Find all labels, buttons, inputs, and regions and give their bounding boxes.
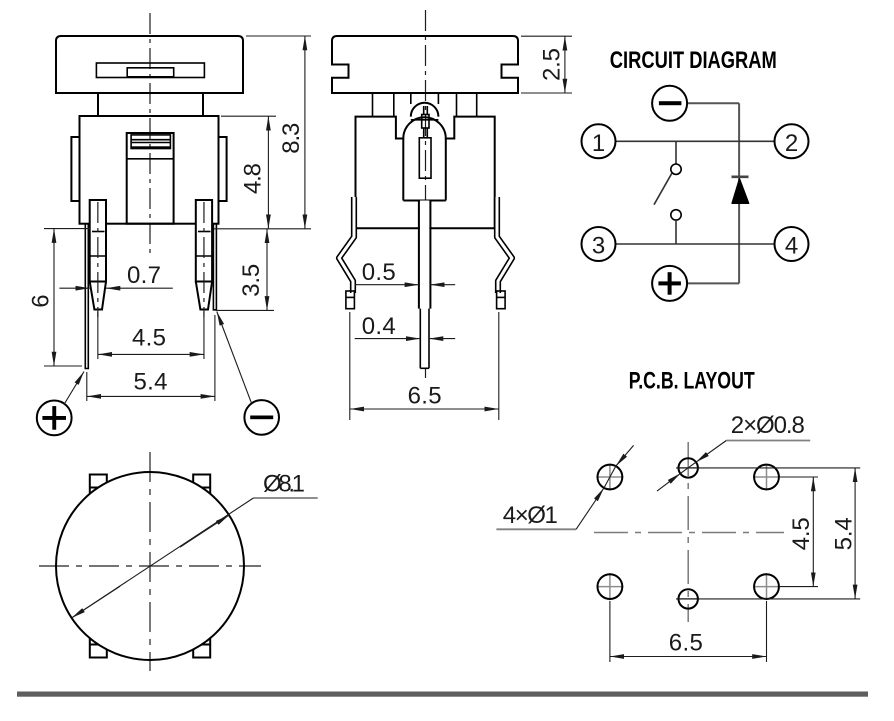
left LED lead (anode, long) <box>85 224 88 369</box>
dim 0.5 right line <box>430 284 455 286</box>
diameter arrow upper-right <box>180 515 229 547</box>
left pin tip <box>346 291 355 309</box>
diameter arrow lower-left <box>72 586 120 618</box>
svg-text:4: 4 <box>785 233 798 260</box>
dim 0.4 right line <box>429 338 455 340</box>
left pin centerline <box>97 202 99 317</box>
pcb vertical centerline <box>687 442 689 622</box>
dim 6.5 left extension <box>349 312 351 420</box>
pcb dim 5.4 bottom extension <box>676 598 860 600</box>
central lead wide right edge <box>429 201 431 309</box>
extension line 3.5 bottom <box>215 309 274 311</box>
plus terminal circle (front) <box>37 401 72 436</box>
label 2xØ0.8 leader line through hole <box>681 462 696 473</box>
neck line 1 <box>372 93 374 117</box>
button cap (side) with notches <box>332 36 518 93</box>
dim 6 bottom extension <box>44 365 82 367</box>
terminal circle 1 <box>582 124 616 158</box>
left ear <box>71 137 79 201</box>
hole BR (4xØ1) <box>754 574 779 599</box>
label 2xØ0.8 underline <box>726 440 810 442</box>
dim 6.5 right extension <box>498 312 500 420</box>
svg-text:8.3: 8.3 <box>278 123 305 154</box>
hole BL (4xØ1) <box>598 574 623 599</box>
hatch line 2 <box>131 142 170 144</box>
left gull-wing pin outer stroke <box>339 197 354 293</box>
wire minus to vertical <box>687 102 739 104</box>
dim 2.5 line <box>564 36 566 93</box>
minus leader line <box>217 312 252 404</box>
pcb dim 4.5 bottom extension <box>779 586 818 588</box>
minus sign bar <box>250 416 273 420</box>
svg-text:2×Ø0.8: 2×Ø0.8 <box>731 412 805 439</box>
svg-text:1: 1 <box>592 130 605 157</box>
switch stub upper <box>675 141 677 164</box>
right pin centerline <box>203 202 205 317</box>
minus terminal circle (circuit) <box>652 86 687 121</box>
switch body (side) with recess and bell arc <box>356 117 495 229</box>
left pin tick 2 <box>90 255 106 257</box>
svg-text:4.5: 4.5 <box>132 325 166 352</box>
svg-text:0.5: 0.5 <box>362 259 396 286</box>
LED cathode bar <box>732 176 749 179</box>
hole bottom small cross <box>677 598 700 600</box>
dim 4.5 line <box>98 353 204 355</box>
dim 0.4 left line <box>355 338 421 340</box>
right pin tick 1 <box>198 231 211 233</box>
dim 4.5 left extension <box>97 312 99 359</box>
dim 4.8 line <box>267 116 269 229</box>
svg-text:P.C.B. LAYOUT: P.C.B. LAYOUT <box>629 368 755 395</box>
hole bottom small (2xØ0.8) <box>679 589 698 608</box>
svg-text:6: 6 <box>27 294 54 307</box>
svg-text:2: 2 <box>785 130 798 157</box>
tab bottom-left inner line <box>90 644 99 646</box>
plunger shaft left wall <box>402 139 404 201</box>
diameter leader horizontal <box>253 497 317 499</box>
terminal circle 4 <box>775 227 809 261</box>
dim 6.5 line <box>350 408 499 410</box>
wire vertical LED branch <box>738 103 740 283</box>
right ear <box>219 137 227 201</box>
left pin taper <box>90 282 106 310</box>
hole TR cross <box>753 464 780 491</box>
hole top small (2xØ0.8) <box>679 458 698 477</box>
svg-text:Ø8.1: Ø8.1 <box>263 471 305 498</box>
dim 6 top extension <box>44 228 90 230</box>
right pin tick 2 <box>196 255 212 257</box>
dim 2.5 bottom extension <box>521 92 572 94</box>
dim 4.8 top extension <box>221 115 276 117</box>
bottom view horizontal centerline <box>39 565 261 567</box>
LED chip lead right <box>426 128 428 138</box>
pcb dim 5.4 line <box>854 468 856 599</box>
tab bottom-right inner line <box>202 644 211 646</box>
svg-text:0.7: 0.7 <box>127 262 161 289</box>
tab top-right inner line <box>202 487 211 489</box>
neck line 4 <box>476 93 478 117</box>
plunger box (front) <box>127 133 174 224</box>
dome channel wall left <box>410 93 412 104</box>
left pin tip tick <box>346 296 355 298</box>
dim 0.5 left line <box>355 284 419 286</box>
minus terminal circle (front) <box>244 400 279 435</box>
hole TL cross <box>596 464 623 491</box>
button cap circle (bottom view) <box>56 472 244 660</box>
wire plus to vertical <box>688 282 740 284</box>
right gull-wing pin inner white <box>497 197 512 293</box>
svg-text:4.5: 4.5 <box>788 517 815 550</box>
plus sign vertical bar <box>52 406 56 430</box>
svg-text:CIRCUIT DIAGRAM: CIRCUIT DIAGRAM <box>610 47 777 74</box>
svg-text:4×Ø1: 4×Ø1 <box>503 502 558 529</box>
LED chip lead left <box>423 106 425 115</box>
label 2xØ0.8 leader lower arrow <box>657 473 681 491</box>
plus leader line <box>64 372 84 405</box>
neck line 2 <box>393 93 395 117</box>
dim 8.3 line <box>304 36 306 229</box>
switch body (front) <box>80 116 219 224</box>
label 4xØ1 underline <box>496 528 576 530</box>
terminal circle 3 <box>582 227 616 261</box>
dim 5.4 right extension <box>214 315 216 401</box>
hole TR (4xØ1) <box>754 465 779 490</box>
extension line body bottom right <box>214 228 312 230</box>
svg-text:4.8: 4.8 <box>240 163 267 194</box>
cap slot outer <box>96 63 204 78</box>
LED chip upper rect <box>422 115 429 129</box>
svg-text:2.5: 2.5 <box>538 48 565 81</box>
dome base line <box>411 119 439 121</box>
tab bottom-left <box>90 638 107 657</box>
switch contact upper <box>671 164 681 174</box>
plus sign horizontal bar <box>42 416 66 420</box>
label 2xØ0.8 leader upper arrow <box>696 441 727 463</box>
svg-text:6.5: 6.5 <box>669 630 703 657</box>
switch blade <box>654 173 672 204</box>
central LED lead white fill <box>420 201 430 368</box>
pcb dim 4.5 top extension <box>779 476 818 478</box>
pcb horizontal centerline <box>594 532 784 534</box>
plus terminal circle (circuit) <box>652 266 687 301</box>
right pin taper <box>196 282 212 310</box>
hatch bottom band <box>131 146 170 149</box>
right switch pin <box>196 200 212 282</box>
hatch line 1 <box>131 139 170 141</box>
neck line 3 <box>456 93 458 117</box>
LED dome arc <box>411 103 439 117</box>
plunger divider line <box>127 158 174 160</box>
dim 2.5 top extension <box>521 35 572 37</box>
central lead bottom cap <box>420 367 429 369</box>
plus bar vertical (circuit) <box>668 272 672 295</box>
tab bottom-right <box>193 638 210 657</box>
dim 8.3 top extension <box>246 35 311 37</box>
tab top-left <box>90 475 107 494</box>
switch stub lower <box>675 220 677 244</box>
plunger shaft right wall <box>445 139 447 201</box>
dim 4.5 right extension <box>203 312 205 359</box>
left gull-wing pin inner white <box>339 197 354 293</box>
svg-text:5.4: 5.4 <box>134 369 168 396</box>
hole top small cross <box>677 467 700 469</box>
centerline front view <box>149 13 151 256</box>
left switch pin <box>90 200 106 282</box>
label 4xØ1 leader lower arrow <box>576 488 604 529</box>
plunger shaft bottom <box>403 200 446 202</box>
neck right line <box>202 93 204 116</box>
dim 5.4 left extension <box>86 372 88 401</box>
tab top-right <box>193 475 210 494</box>
svg-text:3.5: 3.5 <box>238 264 265 297</box>
pcb dim 5.4 top extension <box>676 467 860 469</box>
svg-text:0.4: 0.4 <box>362 313 396 340</box>
pcb dim 6.5 line <box>610 656 767 658</box>
dim 0.7 left line <box>59 287 89 289</box>
central lead narrow right edge <box>428 309 430 369</box>
bottom view vertical centerline <box>149 452 151 671</box>
LED leadframe rect <box>419 138 431 178</box>
svg-text:5.4: 5.4 <box>831 517 858 550</box>
hole BL cross <box>596 573 623 600</box>
LED window hatch box <box>131 135 170 149</box>
pcb dim 6.5 left extension <box>609 601 611 662</box>
svg-text:6.5: 6.5 <box>408 383 442 410</box>
right gull-wing pin outer stroke <box>497 197 512 293</box>
dome channel wall right <box>437 93 439 104</box>
neck left line <box>97 93 99 116</box>
label 4xØ1 leader upper arrow <box>616 445 634 466</box>
dim 6 line <box>53 229 55 366</box>
dim 5.4 line <box>87 395 215 397</box>
right pin tip tick <box>497 296 506 298</box>
right pin tip <box>497 291 506 309</box>
button cap (front) <box>56 36 243 93</box>
diameter dim line <box>72 498 254 618</box>
central lead narrow left edge <box>419 309 421 369</box>
pcb dim 4.5 line <box>812 477 814 587</box>
wire terminal 3 to 4 <box>616 243 775 245</box>
plus bar horizontal (circuit) <box>658 281 681 285</box>
cap slot inner <box>127 68 174 77</box>
svg-text:3: 3 <box>592 233 605 260</box>
dim 3.5 line <box>266 229 268 311</box>
switch contact lower <box>671 210 681 220</box>
bottom separator bar <box>17 692 868 697</box>
LED triangle <box>732 179 749 203</box>
tab top-left inner line <box>90 487 99 489</box>
right LED lead (cathode, short) <box>213 224 216 310</box>
minus bar (circuit) <box>659 101 682 105</box>
label 4xØ1 leader line through hole <box>604 466 616 488</box>
hole TL (4xØ1) <box>598 465 623 490</box>
dim 0.7 right line <box>106 287 173 289</box>
hole BR cross <box>753 573 780 600</box>
left pin tick 1 <box>92 231 105 233</box>
terminal circle 2 <box>775 124 809 158</box>
wire terminal 1 to 2 <box>616 140 775 142</box>
central lead wide left edge <box>418 201 420 309</box>
pcb dim 6.5 right extension <box>766 601 768 662</box>
centerline side view <box>425 10 427 378</box>
